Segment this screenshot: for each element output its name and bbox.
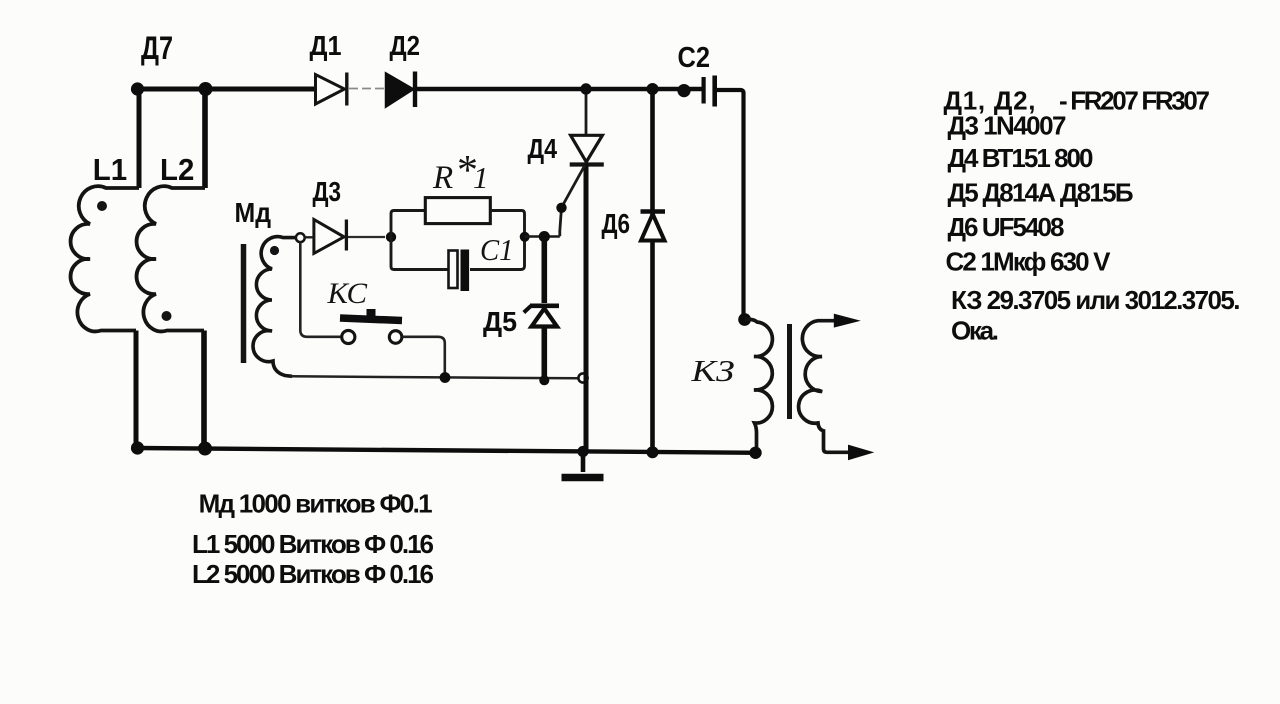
- arrow output top: [834, 314, 861, 328]
- node Д7 left junction: [131, 82, 144, 95]
- capacitor C1 right plate: [461, 250, 470, 292]
- winding КЗ secondary: [799, 321, 849, 453]
- terminal circle Мд top: [296, 233, 305, 242]
- wire top bus left segment: [137, 87, 316, 92]
- svg-text:L1: L1: [93, 152, 127, 187]
- polarity dot Мд: [270, 246, 279, 255]
- transformer core Мд: [241, 244, 247, 363]
- node switch branch / Мд wire junction: [440, 372, 451, 383]
- zener Д5: [524, 237, 559, 378]
- resistor R1 body: [425, 198, 490, 224]
- wire top bus right segment: [413, 87, 702, 91]
- inductor L1: [71, 186, 139, 331]
- diode Д2: [386, 72, 415, 108]
- node Д6 bottom junction: [647, 446, 659, 458]
- switch КС left contact: [342, 330, 355, 343]
- ground: [581, 452, 586, 472]
- capacitor C2 left plate: [702, 77, 706, 104]
- node bottom left junction: [131, 441, 144, 454]
- wire switch to bottom: [403, 337, 445, 376]
- svg-text:Д3 1N4007: Д3 1N4007: [948, 111, 1067, 141]
- capacitor C2 right plate: [712, 76, 717, 107]
- wire L1 top vertical: [137, 89, 142, 188]
- arrow output bottom: [848, 445, 874, 461]
- svg-text:1: 1: [473, 160, 489, 195]
- svg-text:L2 5000 Витков Ф 0.16: L2 5000 Витков Ф 0.16: [192, 559, 434, 589]
- svg-text:R: R: [432, 160, 453, 196]
- svg-text:КЗ: КЗ: [690, 353, 734, 388]
- node R-C right junction: [520, 232, 530, 242]
- wire bottom bus: [137, 448, 760, 453]
- svg-text:С1: С1: [480, 232, 514, 267]
- wire C2 to КЗ primary: [717, 90, 744, 319]
- node Д7 right junction: [199, 82, 213, 96]
- polarity dot L1: [97, 201, 107, 211]
- switch КС button stem: [367, 309, 376, 316]
- svg-text:КС: КС: [326, 277, 368, 310]
- svg-text:L1 5000 Витков Ф 0.16: L1 5000 Витков Ф 0.16: [192, 529, 434, 559]
- node ground junction: [577, 446, 588, 457]
- wire Мд bottom horizontal: [290, 376, 578, 378]
- svg-text:Д5: Д5: [483, 306, 517, 337]
- node КЗ primary bottom: [749, 447, 761, 459]
- node bottom L2 junction: [198, 442, 212, 456]
- node Д5 bottom junction: [539, 375, 549, 385]
- svg-text:Д6: Д6: [602, 208, 631, 239]
- polarity dot L2: [162, 311, 172, 321]
- svg-text:Д4 ВТ151 800: Д4 ВТ151 800: [948, 143, 1094, 173]
- diode Д1: [316, 73, 347, 106]
- text bottom notes: [192, 489, 434, 590]
- capacitor C1 left plate: [449, 251, 458, 289]
- wire Д4 cathode vertical: [584, 165, 589, 453]
- node gate bend dot: [556, 203, 566, 213]
- thyristor Д4: [570, 135, 604, 164]
- wire Д6 vertical: [650, 89, 655, 453]
- svg-text:Д2: Д2: [390, 30, 421, 61]
- wire R-C bottom-left branch: [391, 237, 448, 270]
- switch КС right contact: [389, 331, 402, 344]
- switch КС actuator bar: [340, 318, 402, 321]
- wire L2 top vertical: [202, 89, 208, 188]
- diode Д3: [314, 220, 347, 254]
- transformer core КЗ: [787, 324, 792, 419]
- svg-text:Д3: Д3: [313, 176, 342, 207]
- wire R-C top-right branch: [470, 211, 525, 270]
- wire switch branch vertical from Мд terminal: [300, 243, 341, 337]
- svg-text:Мд: Мд: [235, 197, 272, 228]
- wire Д4 gate diagonal: [560, 165, 585, 236]
- svg-text:Д6 UF5408: Д6 UF5408: [948, 212, 1065, 242]
- diode Д6: [641, 212, 666, 241]
- terminal circle at Д4 cathode line: [578, 373, 587, 382]
- node Д6 top junction: [647, 83, 659, 95]
- wire between D1 cathode and D2 anode: [349, 88, 386, 90]
- svg-text:Д7: Д7: [141, 30, 173, 66]
- wire Мд terminal to Д3: [305, 236, 314, 238]
- svg-text:Д1: Д1: [310, 30, 342, 61]
- svg-text:КЗ 29.3705 или 3012.3705.: КЗ 29.3705 или 3012.3705.: [951, 285, 1241, 315]
- winding КЗ primary: [745, 319, 773, 450]
- svg-text:Ока.: Ока.: [951, 316, 999, 346]
- svg-text:L2: L2: [160, 152, 194, 187]
- wire L2 bottom vertical: [201, 331, 207, 449]
- svg-text:Д4: Д4: [528, 133, 558, 164]
- wire L1 bottom vertical: [134, 331, 139, 449]
- wire R-C top-left branch: [391, 211, 425, 238]
- wire Д3 cathode to R-C node: [348, 236, 385, 238]
- wire R-C to Д5 top: [525, 235, 560, 238]
- text right column: [944, 86, 1241, 346]
- node Д5 top junction: [539, 231, 550, 242]
- node C2 left dot: [677, 84, 690, 97]
- winding Мд: [253, 237, 295, 377]
- svg-text:- FR207 FR307: - FR207 FR307: [1059, 86, 1210, 116]
- thyristor Д4 anode wire: [585, 91, 588, 136]
- svg-text:Мд 1000 витков Ф0.1: Мд 1000 витков Ф0.1: [199, 489, 433, 519]
- node Д4 top junction: [580, 83, 591, 94]
- node R-C left junction: [386, 232, 396, 242]
- node КЗ primary top: [738, 313, 751, 326]
- inductor L2: [137, 186, 205, 331]
- svg-text:С2 1Мкф 630 V: С2 1Мкф 630 V: [946, 247, 1112, 277]
- svg-text:Д5 Д814А Д815Б: Д5 Д814А Д815Б: [948, 178, 1134, 208]
- svg-text:C2: C2: [678, 42, 711, 74]
